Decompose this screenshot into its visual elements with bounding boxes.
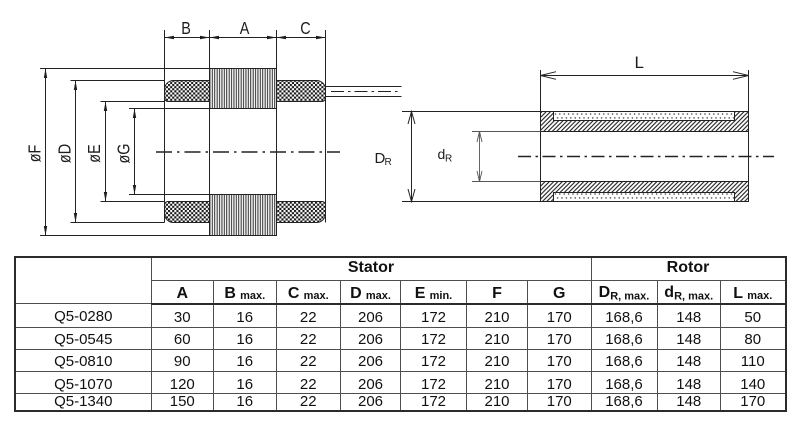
svg-text:øD: øD — [55, 144, 75, 163]
svg-text:øE: øE — [85, 144, 105, 163]
svg-text:C: C — [300, 18, 311, 38]
svg-text:L: L — [635, 53, 644, 72]
svg-text:R: R — [445, 154, 452, 165]
svg-text:A: A — [240, 18, 250, 38]
svg-text:R: R — [385, 157, 392, 168]
svg-text:B: B — [181, 18, 191, 38]
svg-text:øG: øG — [114, 144, 134, 164]
svg-text:øF: øF — [25, 145, 45, 163]
